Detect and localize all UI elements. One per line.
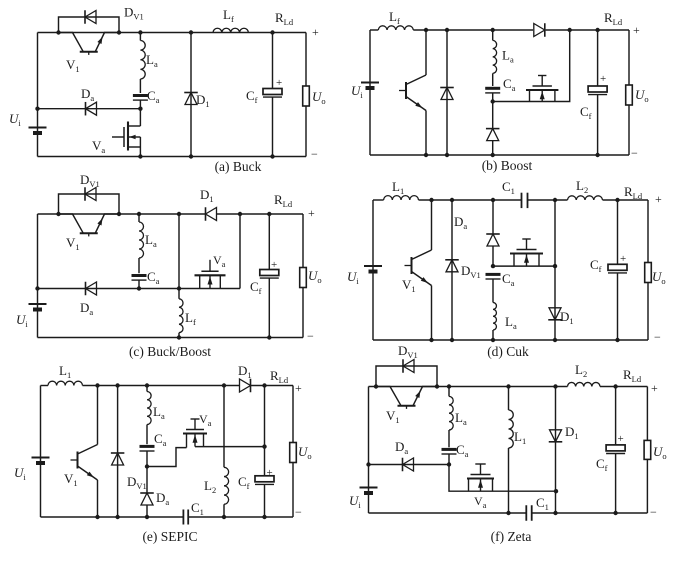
node: (f) D1 bottom bbox=[553, 511, 557, 515]
node: (c) V1 collector bbox=[56, 212, 60, 216]
resistor RLd/Uo (e) bbox=[290, 443, 297, 463]
svg-text:(d) Cuk: (d) Cuk bbox=[487, 344, 529, 359]
svg-text:−: − bbox=[295, 505, 302, 519]
node: (f) Ca bottom bbox=[447, 462, 451, 466]
wire: (e) left rail bbox=[40, 386, 42, 518]
wire: (d) right rail upper bbox=[647, 200, 649, 263]
circuit (a) Buck bbox=[9, 5, 326, 175]
svg-text:−: − bbox=[307, 329, 314, 343]
transistor V1 (a) bbox=[59, 33, 84, 52]
mosfet Va (e) bbox=[183, 432, 207, 434]
wire: (e) aux staircase bbox=[147, 448, 187, 467]
diode Da (d) bbox=[492, 200, 494, 234]
node: (f) V1 emitter bbox=[435, 384, 439, 388]
wire: (a) bottom rail bbox=[38, 156, 307, 158]
node: (b) Cf top bbox=[595, 28, 599, 32]
wire: (f) left rail bbox=[368, 387, 370, 514]
transistor V1 (e) bbox=[97, 386, 99, 445]
node: (c) Cf bottom bbox=[267, 335, 271, 339]
svg-text:+: + bbox=[655, 192, 662, 206]
svg-text:(a) Buck: (a) Buck bbox=[215, 159, 262, 174]
wire: (c) top rail seg2 bbox=[217, 213, 303, 215]
node: (f) Cf top bbox=[613, 384, 617, 388]
diode Da (b) bbox=[487, 129, 499, 141]
svg-text:(f) Zeta: (f) Zeta bbox=[491, 529, 532, 544]
wire: (f) top rail seg2 bbox=[600, 386, 647, 388]
wire: (e) right rail lower bbox=[292, 463, 294, 518]
wire: (e) bottom rail seg2 bbox=[188, 516, 293, 518]
wire: (f) bottom rail seg2 bbox=[532, 512, 648, 514]
svg-text:+: + bbox=[651, 381, 658, 395]
wire: (a) right rail lower bbox=[305, 106, 307, 157]
inductor L2 (d) bbox=[568, 196, 603, 200]
node: (a) Va source bottom bbox=[138, 154, 142, 158]
wire: (a) top rail bbox=[38, 32, 307, 34]
svg-text:−: − bbox=[311, 147, 318, 161]
svg-text:(c) Buck/Boost: (c) Buck/Boost bbox=[129, 344, 211, 359]
transistor V1 (f) bbox=[376, 387, 401, 406]
diode Da (a) bbox=[86, 102, 97, 115]
capacitor Ca (b) bbox=[485, 87, 500, 90]
wire: (d) top rail seg4 bbox=[603, 199, 649, 201]
circuit (d) Cuk bbox=[347, 178, 666, 359]
mosfet Va (b) bbox=[493, 30, 570, 102]
node: (b) La top bbox=[491, 28, 495, 32]
svg-text:+: + bbox=[267, 467, 273, 479]
node: (e) Da bottom bbox=[145, 515, 149, 519]
node: (f) D1 top bbox=[553, 384, 557, 388]
node: (a) V1 emitter bbox=[117, 30, 121, 34]
node: (b) Da bottom bbox=[491, 153, 495, 157]
wire: (d) right rail lower bbox=[647, 283, 649, 341]
capacitor Ca (f) bbox=[442, 448, 457, 451]
circuit (e) SEPIC bbox=[14, 363, 312, 544]
node: (f) aux joins D1 bbox=[554, 489, 558, 493]
svg-text:+: + bbox=[295, 381, 302, 395]
node: (f) La top bbox=[447, 384, 451, 388]
svg-text:+: + bbox=[308, 206, 315, 220]
resistor RLd/Uo (b) bbox=[626, 85, 633, 105]
node: (e) mid top bbox=[222, 383, 226, 387]
diode Da (c) bbox=[86, 282, 97, 295]
circuit (c) Buck/Boost bbox=[16, 172, 322, 359]
node: (a) La top bbox=[138, 30, 142, 34]
wire: (c) aux wire right bbox=[239, 214, 241, 289]
wire: (b) right rail lower bbox=[628, 105, 630, 155]
node: (d) Da top bbox=[491, 198, 495, 202]
inductor L2 (f) bbox=[568, 382, 600, 386]
node: (d) D1 bottom bbox=[553, 338, 557, 342]
capacitor Cf (a) bbox=[272, 33, 274, 89]
battery Ui (a) bbox=[29, 127, 47, 129]
wire: (e) top rail seg1 bbox=[41, 385, 49, 387]
circuit (b) Boost bbox=[351, 9, 649, 173]
node: (e) La top bbox=[145, 383, 149, 387]
node: (a) D1 bottom bbox=[189, 154, 193, 158]
inductor Lf (a) bbox=[213, 28, 248, 32]
diode Da (f) bbox=[403, 458, 414, 471]
wire: (f) aux down bbox=[449, 465, 556, 492]
inductor La (d) bbox=[493, 303, 496, 331]
capacitor Ca (e) bbox=[140, 445, 155, 448]
capacitor C1 (d) bbox=[521, 193, 523, 208]
svg-text:(b) Boost: (b) Boost bbox=[482, 158, 533, 173]
node: (d) DV1 top bbox=[450, 198, 454, 202]
diode D1 (e) bbox=[240, 379, 251, 392]
inductor L1 (f) bbox=[508, 387, 510, 411]
capacitor C1 (f) bbox=[525, 505, 527, 521]
circuit (f) Zeta bbox=[349, 343, 667, 544]
node: (b) DV1 top bbox=[445, 28, 449, 32]
wire: (d) top rail seg1 bbox=[373, 199, 384, 201]
inductor L1 (d) bbox=[384, 196, 419, 200]
transistor V1 (d) bbox=[431, 200, 433, 250]
inductor La (c) bbox=[138, 214, 140, 222]
node: (d) Da bottom / Ca top bbox=[491, 264, 495, 268]
node: (c) Lf bottom bbox=[177, 335, 181, 339]
capacitor Cf (f) bbox=[615, 387, 617, 445]
node: (b) Ca bottom bbox=[491, 99, 495, 103]
node: (f) Cf bottom bbox=[613, 511, 617, 515]
svg-text:+: + bbox=[600, 73, 606, 85]
mosfet Va (c) bbox=[195, 274, 226, 276]
node: (f) L1 bottom bbox=[506, 511, 510, 515]
node: (f) V1 collector bbox=[374, 384, 378, 388]
diode D1 (a) bbox=[190, 33, 192, 157]
resistor RLd/Uo (d) bbox=[645, 263, 652, 283]
node: (e) DV1 bottom bbox=[115, 515, 119, 519]
capacitor Cf (d) bbox=[617, 200, 619, 264]
node: (d) aux right bbox=[553, 264, 557, 268]
svg-text:+: + bbox=[276, 77, 282, 89]
wire: (f) right rail upper bbox=[646, 387, 648, 441]
wire: (d) bottom rail bbox=[373, 339, 648, 341]
node: (e) L2 bottom bbox=[222, 515, 226, 519]
wire: (c) Da branch bbox=[38, 288, 140, 290]
svg-text:+: + bbox=[633, 23, 640, 37]
node: (c) La top bbox=[137, 212, 141, 216]
diode DV1 (b) bbox=[446, 30, 448, 155]
resistor RLd/Uo (f) bbox=[644, 440, 651, 459]
battery Ui (c) bbox=[29, 303, 47, 305]
wire: (a) Da branch bbox=[38, 108, 141, 110]
wire: (e) aux right bbox=[195, 446, 265, 448]
wire: (f) right rail lower bbox=[646, 459, 648, 513]
wire: (a) right rail upper bbox=[305, 33, 307, 87]
node: (e) Cf bottom bbox=[262, 515, 266, 519]
node: (d) Cf bottom bbox=[615, 338, 619, 342]
wire: (c) top rail seg1 bbox=[38, 213, 206, 215]
battery Ui (d) bbox=[364, 265, 382, 267]
mosfet Va (d) bbox=[493, 265, 555, 267]
battery Ui (e) bbox=[32, 457, 50, 459]
node: (b) V1 collector bbox=[424, 28, 428, 32]
transistor V1 (c) bbox=[59, 214, 84, 233]
node: (e) Cf top bbox=[262, 383, 266, 387]
wire: (b) top rail seg3 bbox=[546, 29, 629, 31]
inductor La (f) bbox=[448, 387, 450, 397]
svg-text:−: − bbox=[654, 330, 661, 344]
svg-text:(e) SEPIC: (e) SEPIC bbox=[142, 529, 197, 544]
node: (d) D1 top bbox=[553, 198, 557, 202]
node: (d) V1 emitter bottom bbox=[429, 338, 433, 342]
svg-text:+: + bbox=[312, 25, 319, 39]
resistor RLd/Uo (c) bbox=[300, 268, 307, 288]
wire: (b) bottom rail bbox=[370, 154, 629, 156]
wire: (b) right rail upper bbox=[628, 30, 630, 85]
node: (c) mid junction bbox=[177, 286, 181, 290]
wire: (e) top rail seg2 bbox=[83, 385, 240, 387]
wire: (c) bottom rail bbox=[38, 337, 304, 339]
node: (c) mid top bbox=[177, 212, 181, 216]
diode DV1 (c) bbox=[59, 194, 120, 214]
node: (a) Ca bottom / Da bbox=[138, 107, 142, 111]
wire: (e) top rail seg3 bbox=[251, 385, 293, 387]
node: (d) DV1 bottom bbox=[450, 338, 454, 342]
node: (a) Cf top bbox=[270, 30, 274, 34]
node: (f) Da left bbox=[366, 462, 370, 466]
svg-text:+: + bbox=[620, 253, 626, 265]
inductor La (b) bbox=[492, 30, 494, 40]
diode DV1 (e) bbox=[117, 386, 119, 518]
wire: (e) bottom rail seg1 bbox=[41, 516, 184, 518]
inductor Lf (c) bbox=[178, 289, 180, 299]
wire: (f) bottom rail seg1 bbox=[369, 512, 527, 514]
node: (d) La bottom bbox=[491, 338, 495, 342]
diode DV1 (d) bbox=[451, 200, 453, 340]
wire: (b) left rail bbox=[369, 30, 371, 155]
battery Ui (f) bbox=[360, 487, 378, 489]
node: (b) aux top bbox=[568, 28, 572, 32]
wire: (c) mid vertical bbox=[178, 214, 180, 289]
node: (f) L1 top bbox=[506, 384, 510, 388]
wire: (d) top rail seg3 bbox=[528, 199, 568, 201]
node: (a) V1 collector bbox=[56, 30, 60, 34]
node: (a) Cf bottom bbox=[270, 154, 274, 158]
node: (d) V1 collector bbox=[429, 198, 433, 202]
diode DV1 (a) bbox=[59, 17, 120, 33]
wire: (b) top rail seg2 bbox=[413, 29, 533, 31]
inductor La (e) bbox=[146, 386, 148, 392]
capacitor Cf (b) bbox=[597, 30, 599, 86]
resistor RLd/Uo (a) bbox=[303, 86, 310, 106]
inductor L1 (e) bbox=[48, 381, 82, 385]
wire: (a) left rail bbox=[37, 33, 39, 157]
node: (b) DV1 bottom bbox=[445, 153, 449, 157]
node: (a) D1 top bbox=[189, 30, 193, 34]
transistor V1 (b) bbox=[425, 30, 427, 75]
capacitor Ca (a) bbox=[133, 94, 148, 97]
svg-text:−: − bbox=[650, 505, 657, 519]
node: (c) Ca bottom bbox=[137, 286, 141, 290]
mosfet Va (f) bbox=[467, 477, 494, 479]
node: (c) Cf top bbox=[267, 212, 271, 216]
wire: (e) right rail upper bbox=[292, 386, 294, 443]
wire: (f) aux right bbox=[555, 490, 557, 492]
inductor La (a) bbox=[140, 41, 145, 79]
diode Da (e) bbox=[141, 493, 153, 505]
diode D1 (f) bbox=[555, 387, 557, 514]
node: (e) DV1 top bbox=[115, 383, 119, 387]
node: (c) aux top bbox=[238, 212, 242, 216]
diode DV1 (f) bbox=[376, 366, 437, 387]
mosfet Va (a) bbox=[139, 109, 141, 126]
wire: (b) top rail seg1 bbox=[370, 29, 378, 31]
node: (c) V1 emitter bbox=[117, 212, 121, 216]
wire: (c) right rail upper bbox=[302, 214, 304, 268]
svg-text:−: − bbox=[631, 146, 638, 160]
node: (e) Ca bottom bbox=[145, 464, 149, 468]
capacitor Ca (d) bbox=[486, 273, 501, 276]
node: (c) Da left bbox=[35, 286, 39, 290]
wire: (c) right rail lower bbox=[302, 288, 304, 338]
svg-text:+: + bbox=[618, 433, 624, 445]
wire: (c) aux wire left bbox=[139, 288, 240, 290]
node: (e) V1 collector bbox=[95, 383, 99, 387]
node: (b) Cf bottom bbox=[595, 153, 599, 157]
diode D1 (b) bbox=[534, 24, 545, 37]
diode D1 (d) bbox=[554, 200, 556, 340]
wire: (d) left rail bbox=[372, 200, 374, 340]
wire: (c) left rail bbox=[37, 214, 39, 338]
wire: (f) Da branch bbox=[369, 464, 450, 466]
inductor L2 (e) bbox=[224, 467, 229, 504]
node: (e) aux joins Cf branch bbox=[262, 444, 266, 448]
node: (a) Da left on rail bbox=[35, 107, 39, 111]
capacitor Cf (c) bbox=[268, 214, 270, 270]
wire: (e) mid vertical bbox=[223, 386, 225, 468]
node: (d) Cf top bbox=[615, 198, 619, 202]
wire: (f) top rail seg1 bbox=[369, 386, 568, 388]
node: (e) V1 emitter bottom bbox=[95, 515, 99, 519]
diode D1 (c) bbox=[206, 208, 217, 221]
capacitor Cf (e) bbox=[264, 386, 266, 476]
svg-text:+: + bbox=[271, 259, 277, 271]
node: (b) V1 emitter bottom bbox=[424, 153, 428, 157]
capacitor Ca (c) bbox=[132, 274, 147, 277]
battery Ui (b) bbox=[361, 82, 379, 84]
capacitor C1 (e) bbox=[182, 510, 184, 525]
inductor Lf (b) bbox=[378, 26, 413, 30]
wire: (d) top rail seg2 bbox=[419, 199, 522, 201]
